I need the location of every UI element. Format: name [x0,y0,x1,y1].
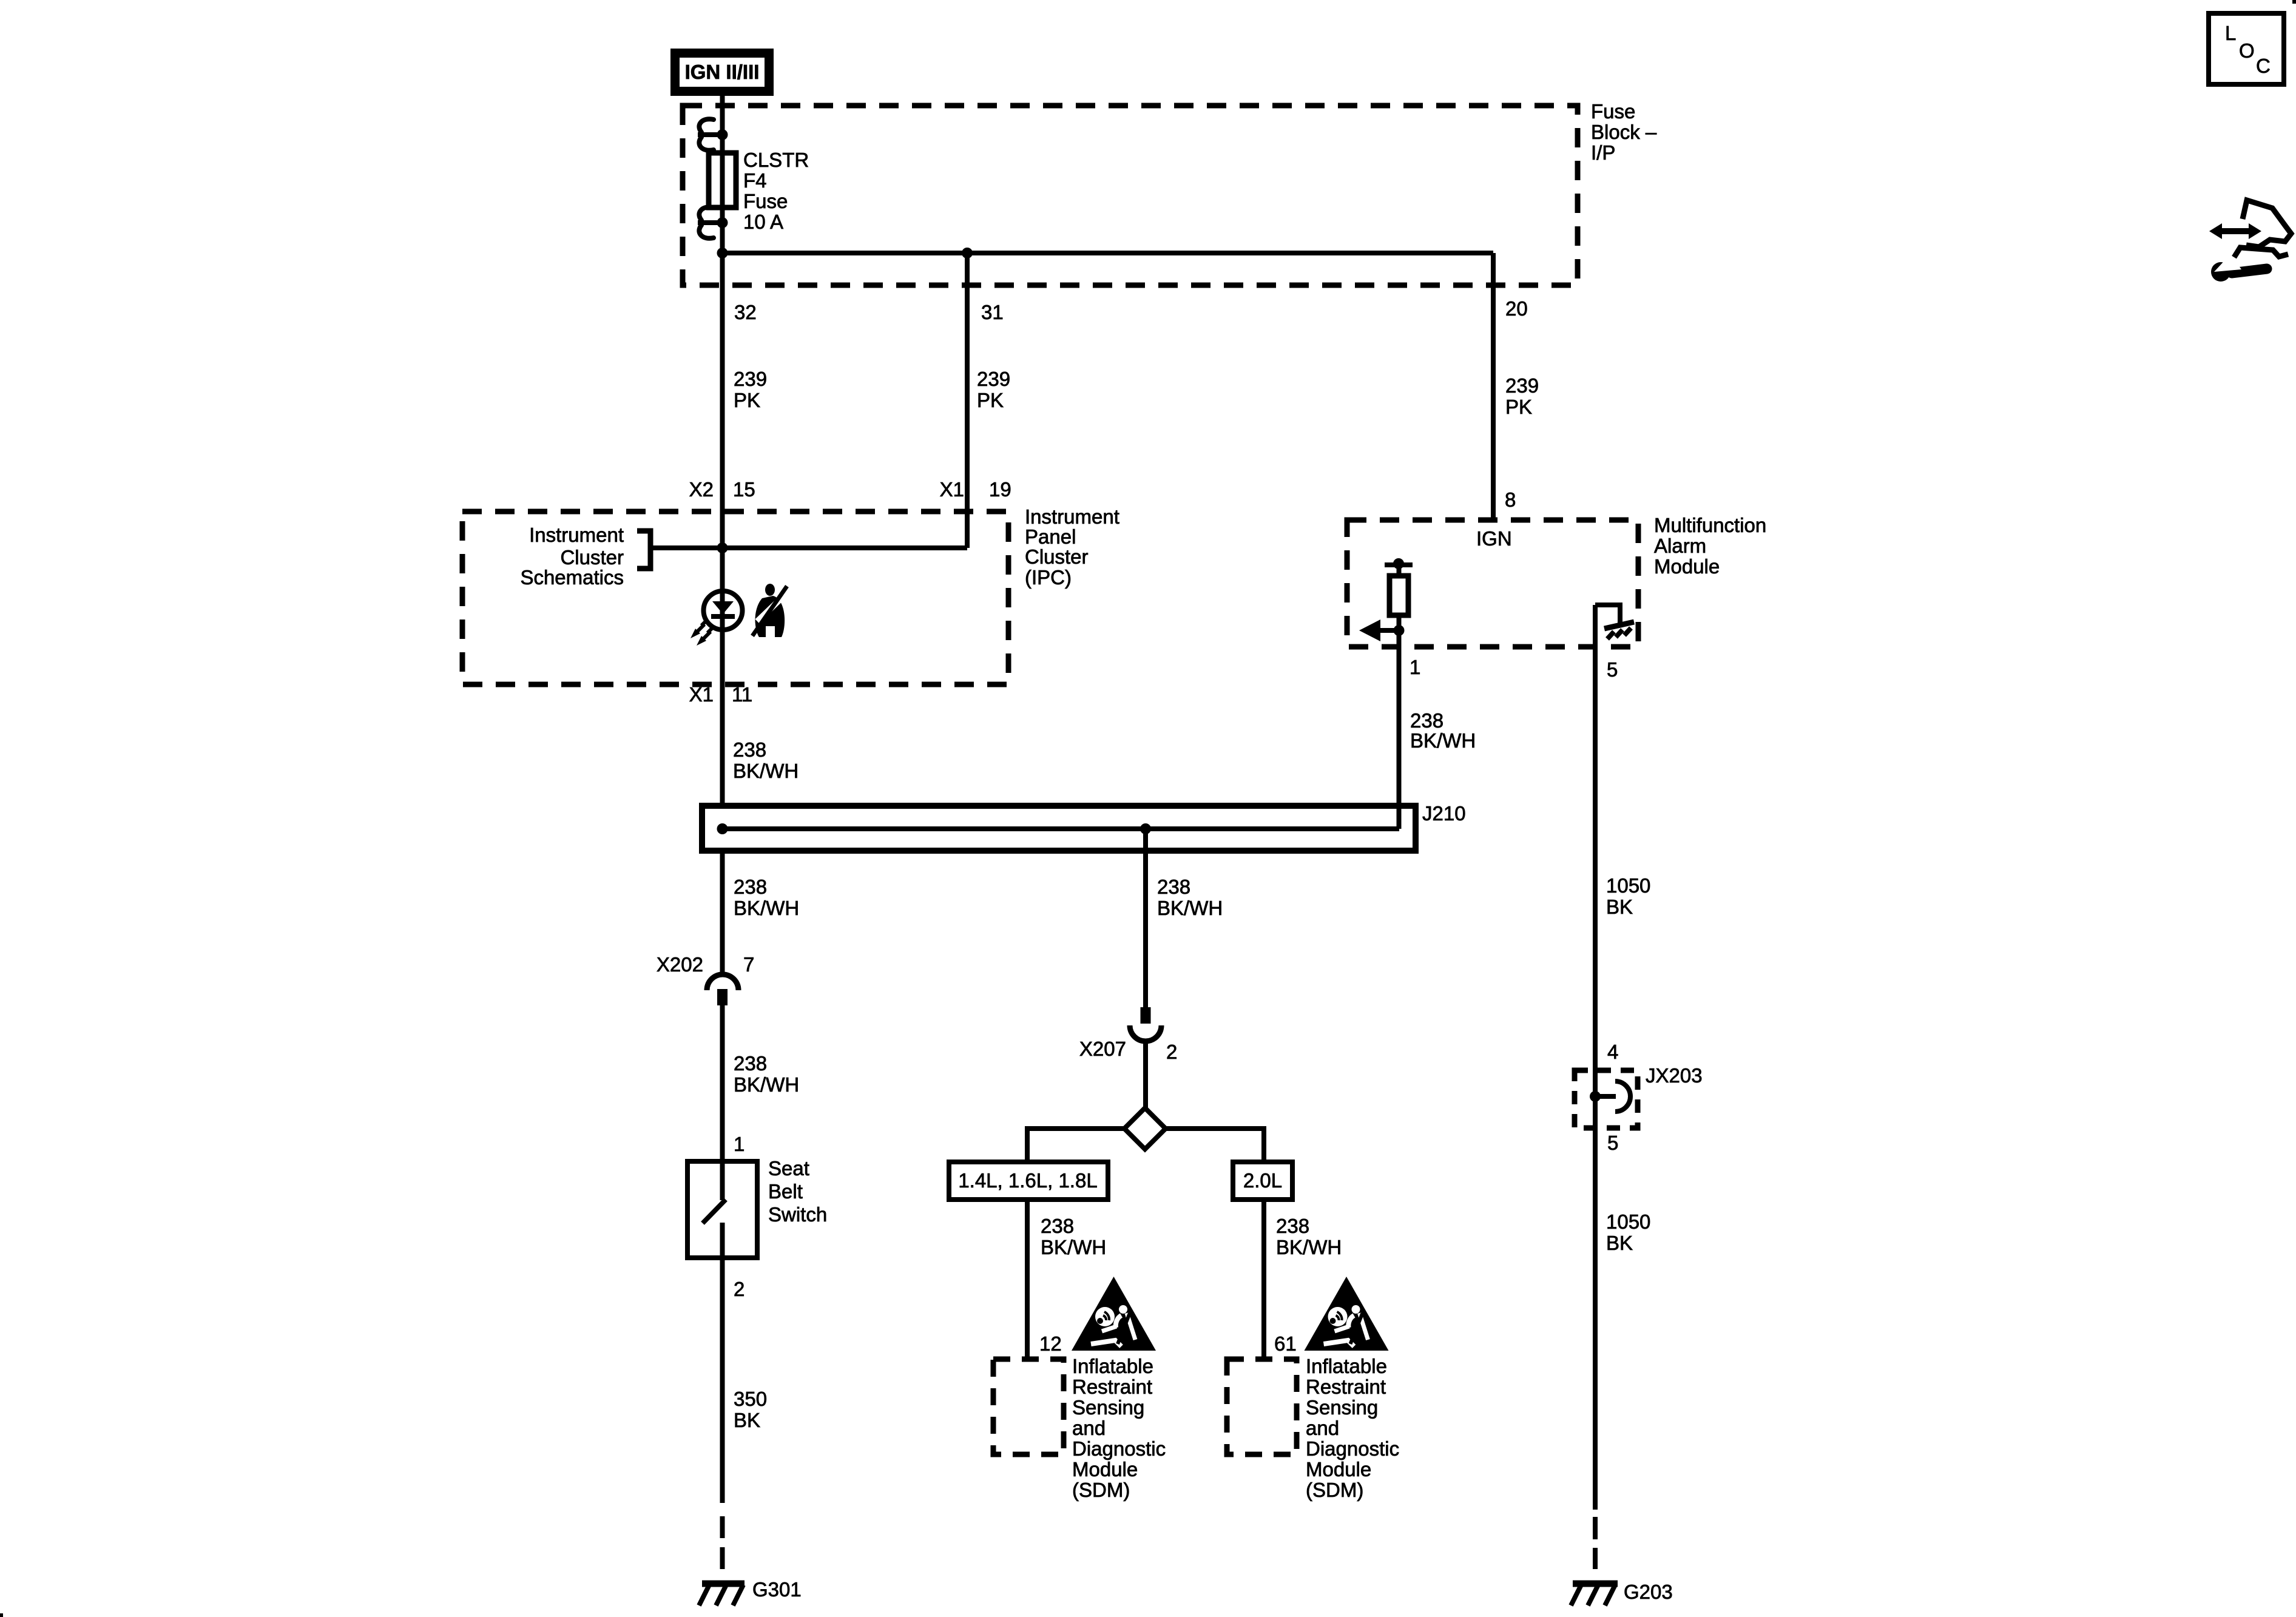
svg-text:350: 350 [734,1388,767,1410]
bus wire inside fuse block [717,248,1494,258]
svg-text:238: 238 [733,738,766,761]
seat belt indicator LED [690,591,743,646]
svg-text:Panel: Panel [1025,525,1076,548]
wire J210 to X202 [720,851,725,973]
splice pack J210 [702,806,1416,851]
svg-text:Restraint: Restraint [1072,1376,1152,1398]
svg-text:Diagnostic: Diagnostic [1072,1437,1166,1460]
svg-text:5: 5 [1607,1132,1618,1154]
svg-text:Schematics: Schematics [520,566,624,589]
svg-text:31: 31 [981,301,1004,323]
wire fuse to bus [720,208,725,253]
alarm module internal ground [1595,605,1634,639]
svg-text:L: L [2225,22,2236,44]
svg-text:Multifunction: Multifunction [1654,514,1766,536]
instrument panel cluster IPC dashed box [462,511,1008,684]
svg-text:X202: X202 [657,953,703,976]
label CLSTR F4 Fuse 10 A [743,149,809,233]
wire pin 31 to IPC pin 19 [965,253,970,548]
svg-text:PK: PK [977,389,1004,411]
svg-text:8: 8 [1505,488,1516,511]
svg-text:5: 5 [1607,658,1618,681]
label wire 1050 BK lower [1606,1210,1650,1254]
SDM dashed box right [1227,1359,1297,1454]
wire pin 20 to alarm module pin 8 [1491,253,1496,520]
label connector X1 pin 11 [689,683,753,706]
wire IGN feed to fuse clip [720,96,725,209]
wire J210 to X207 [1143,829,1148,1008]
svg-text:Seat: Seat [768,1157,809,1180]
svg-text:1050: 1050 [1606,874,1650,897]
svg-text:and: and [1072,1417,1106,1439]
svg-text:Instrument: Instrument [529,524,624,546]
svg-text:1: 1 [734,1133,745,1155]
svg-text:2: 2 [1166,1041,1177,1063]
wire 1.4L branch to SDM [1025,1200,1030,1360]
svg-text:Inflatable: Inflatable [1306,1355,1387,1377]
fuse clip terminal top [698,119,728,150]
svg-text:Block –: Block – [1591,121,1657,143]
label SDM right [1306,1355,1399,1501]
svg-text:BK/WH: BK/WH [1157,897,1223,919]
svg-text:X1: X1 [940,478,964,501]
svg-text:12: 12 [1039,1332,1062,1355]
svg-text:CLSTR: CLSTR [743,149,809,171]
wire IPC internal horizontal link [651,542,967,553]
svg-text:IGN: IGN [1476,527,1512,550]
svg-text:Alarm: Alarm [1654,535,1706,557]
label Fuse Block - I/P [1591,100,1657,164]
svg-text:19: 19 [989,478,1011,501]
svg-text:238: 238 [734,876,767,898]
svg-text:(IPC): (IPC) [1025,566,1072,589]
svg-text:61: 61 [1274,1332,1297,1355]
label connector X2 pin 15 [689,478,755,501]
svg-text:Cluster: Cluster [560,546,624,569]
seat belt pictogram in IPC [752,584,787,637]
bracket for schematics reference [637,531,650,569]
label wire 238 BK/WH alarm [1410,709,1476,752]
label Instrument Cluster Schematics [520,524,624,589]
junction connector JX203 [1575,1070,1638,1128]
engine variant box 1.4L 1.6L 1.8L [949,1162,1108,1200]
wire 2.0L branch to SDM [1261,1200,1266,1360]
label wire 350 BK [734,1388,767,1431]
svg-text:and: and [1306,1417,1339,1439]
svg-text:(SDM): (SDM) [1306,1479,1363,1501]
splice diamond [1124,1108,1166,1149]
svg-text:PK: PK [734,389,760,411]
svg-text:G203: G203 [1624,1581,1673,1603]
alarm module internal contact and resistor [1385,558,1413,647]
ground G301 [699,1584,745,1605]
LOC legend box [2209,13,2284,84]
seat belt switch [687,1161,757,1258]
svg-text:BK/WH: BK/WH [1276,1236,1342,1258]
alarm module output arrow [1359,619,1399,641]
svg-text:BK/WH: BK/WH [734,897,799,919]
wire IPC vertical through LED [720,511,725,806]
svg-text:IGN II/III: IGN II/III [685,61,760,83]
svg-text:2: 2 [734,1278,745,1300]
wire pin 32 to IPC [720,253,725,511]
svg-text:BK: BK [1606,896,1633,918]
svg-text:Module: Module [1072,1458,1138,1480]
svg-text:BK/WH: BK/WH [733,760,799,782]
label Instrument Panel Cluster (IPC) [1025,505,1119,589]
svg-text:Fuse: Fuse [1591,100,1635,123]
svg-text:BK/WH: BK/WH [734,1073,799,1096]
svg-text:238: 238 [734,1052,767,1075]
svg-text:Switch: Switch [768,1203,827,1226]
wire dashed to ground G203 [1593,1517,1598,1569]
svg-text:PK: PK [1505,396,1532,418]
svg-text:Fuse: Fuse [743,190,788,212]
svg-text:2.0L: 2.0L [1243,1169,1282,1192]
svg-text:1.4L, 1.6L, 1.8L: 1.4L, 1.6L, 1.8L [958,1169,1097,1192]
wire switch to G301 [720,1258,725,1503]
svg-text:15: 15 [733,478,755,501]
label connector X207 pin 2 [1079,1038,1177,1063]
svg-text:238: 238 [1041,1215,1074,1237]
fuse CLSTR F4 body [709,153,736,208]
label wire 238 BK/WH middle [1157,876,1223,919]
fuse clip terminal bottom [698,207,728,238]
SRS warning triangle left [1072,1277,1156,1351]
ground G203 [1571,1584,1618,1605]
label Multifunction Alarm Module [1654,514,1766,578]
label wire 238 BK/WH lower left [734,1052,799,1096]
inline connector X202 [707,974,738,1005]
label wire 238 BK/WH mid left [734,876,799,919]
svg-text:BK: BK [1606,1232,1633,1254]
svg-text:Restraint: Restraint [1306,1376,1386,1398]
svg-text:10 A: 10 A [743,211,783,233]
svg-text:X207: X207 [1079,1038,1126,1060]
fuse block I/P dashed box [683,106,1578,285]
svg-text:G301: G301 [752,1578,802,1601]
svg-text:Module: Module [1654,555,1720,578]
engine variant box 2.0L [1233,1162,1292,1200]
svg-text:J210: J210 [1422,802,1466,825]
SRS warning triangle right [1305,1277,1389,1351]
svg-text:I/P: I/P [1591,141,1615,164]
svg-text:1050: 1050 [1606,1210,1650,1233]
power feed tag IGN II/III [670,49,774,96]
svg-text:Inflatable: Inflatable [1072,1355,1153,1377]
svg-text:(SDM): (SDM) [1072,1479,1130,1501]
label SDM left [1072,1355,1166,1501]
svg-text:238: 238 [1410,709,1443,732]
page corner mark top right [2292,0,2296,4]
svg-text:20: 20 [1505,297,1528,320]
svg-text:BK: BK [734,1409,760,1431]
wire X207 to splice [1143,1041,1148,1110]
svg-text:JX203: JX203 [1646,1064,1703,1087]
multifunction alarm module dashed box [1347,520,1638,647]
label connector X202 pin 7 [657,953,754,976]
service manual connector icon [2209,200,2291,282]
svg-text:F4: F4 [743,169,767,192]
svg-text:X2: X2 [689,478,714,501]
svg-text:Diagnostic: Diagnostic [1306,1437,1399,1460]
svg-text:7: 7 [743,953,754,976]
svg-text:238: 238 [1157,876,1190,898]
label wire 238 BK/WH branch left [1041,1215,1106,1258]
svg-text:11: 11 [732,683,752,706]
label wire 239 PK left [734,368,767,411]
wire dashed to ground G301 [720,1516,725,1569]
svg-text:239: 239 [1505,374,1539,397]
wire splice branches [1027,1126,1264,1162]
label connector X1 pin 19 [940,478,1011,501]
svg-text:X1: X1 [689,683,714,706]
svg-text:Module: Module [1306,1458,1371,1480]
label wire 239 PK right [1505,374,1539,418]
svg-text:O: O [2239,39,2255,62]
inline connector X207 [1130,1007,1161,1041]
wire X202 to seat belt switch [720,1005,725,1200]
svg-text:Sensing: Sensing [1306,1396,1378,1419]
svg-text:32: 32 [734,301,757,323]
wire alarm pin 5 to G203 [1593,605,1598,1510]
wire alarm pin 1 to J210 [1397,647,1402,829]
svg-text:238: 238 [1276,1215,1309,1237]
svg-text:C: C [2256,55,2271,77]
label Seat Belt Switch [768,1157,827,1226]
svg-text:239: 239 [734,368,767,390]
svg-text:Belt: Belt [768,1180,803,1203]
svg-text:1: 1 [1410,656,1420,678]
label wire 1050 BK upper [1606,874,1650,918]
svg-text:BK/WH: BK/WH [1410,729,1476,752]
svg-text:Instrument: Instrument [1025,505,1119,528]
svg-text:239: 239 [977,368,1010,390]
svg-text:4: 4 [1607,1041,1618,1063]
svg-text:Cluster: Cluster [1025,545,1089,568]
label wire 238 BK/WH upper left [733,738,799,782]
svg-text:BK/WH: BK/WH [1041,1236,1106,1258]
label wire 239 PK middle [977,368,1010,411]
label wire 238 BK/WH branch right [1276,1215,1342,1258]
SDM dashed box left [993,1359,1064,1454]
page corner mark bottom left [0,1613,3,1617]
svg-text:Sensing: Sensing [1072,1396,1144,1419]
